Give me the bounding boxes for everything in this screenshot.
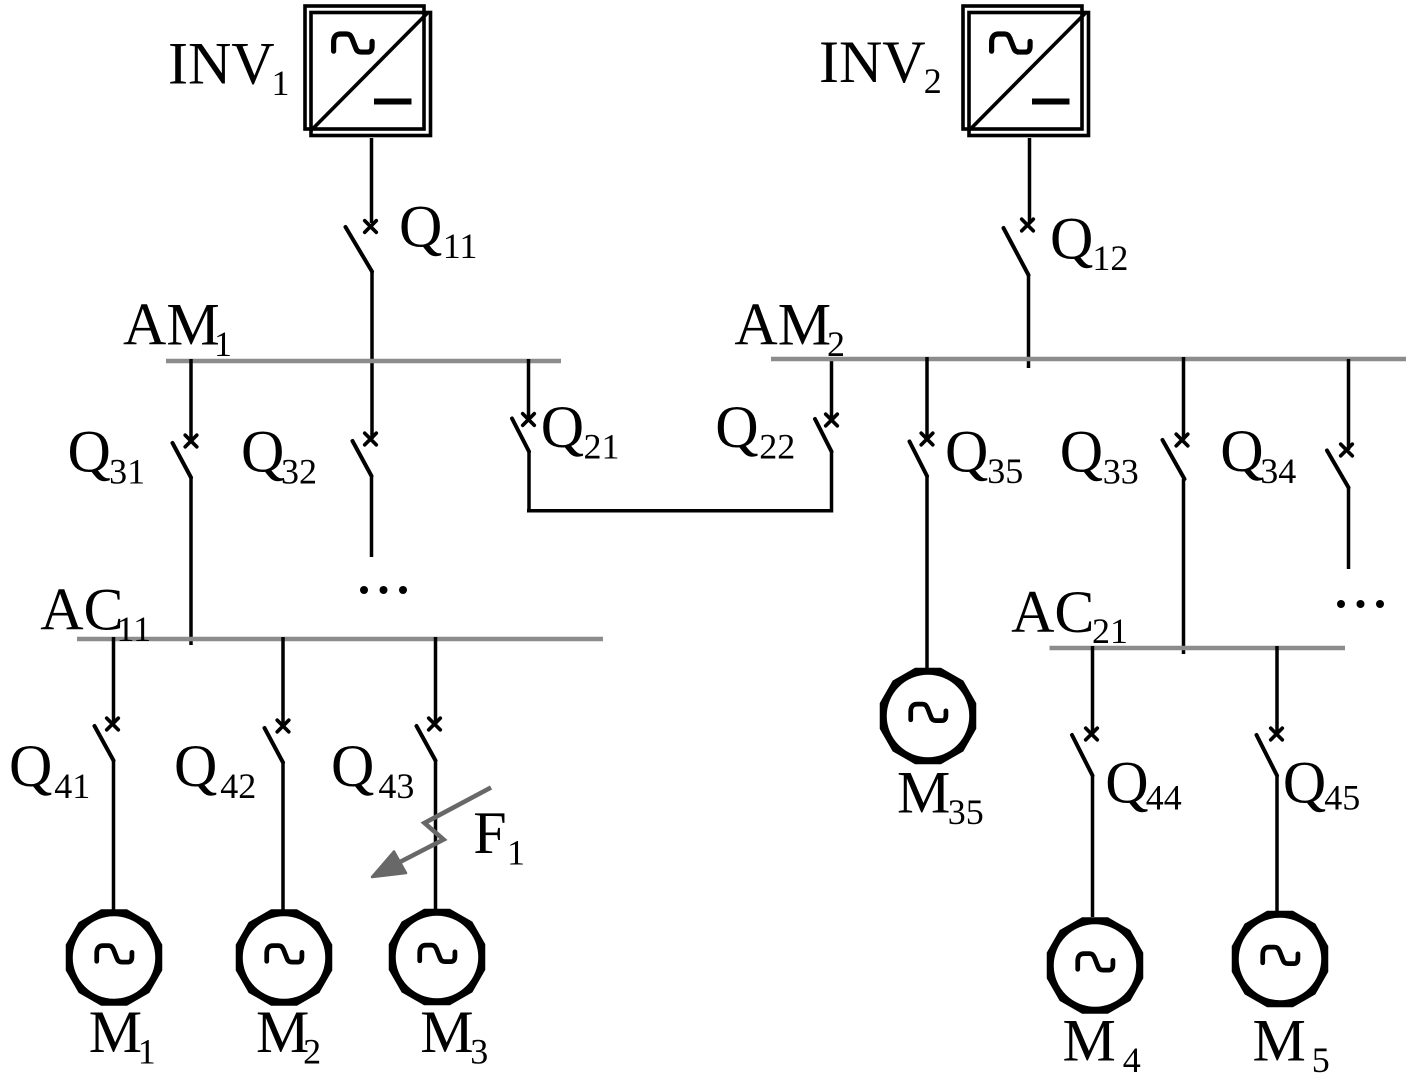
- label INV2: [819, 29, 942, 101]
- label Q34: [1220, 418, 1296, 491]
- svg-text:F: F: [473, 800, 506, 866]
- wire INV2 to Q12: [1028, 138, 1032, 223]
- label AM2: [734, 292, 845, 365]
- breaker Q32: [353, 433, 377, 476]
- breaker Q45: [1257, 728, 1283, 775]
- svg-text:Q: Q: [1050, 206, 1093, 272]
- svg-text:35: 35: [948, 792, 984, 832]
- breaker Q44: [1072, 728, 1097, 775]
- svg-text:Q: Q: [715, 394, 758, 460]
- svg-text:AM: AM: [734, 292, 831, 358]
- svg-text:42: 42: [220, 766, 256, 806]
- label Q21: [541, 394, 620, 466]
- bus AC21: [1050, 646, 1346, 651]
- label Q41: [9, 733, 90, 806]
- inverter INV1: [305, 6, 431, 136]
- svg-text:11: 11: [117, 609, 152, 649]
- svg-text:AC: AC: [1011, 579, 1094, 645]
- ellipsis below Q32: [360, 586, 407, 594]
- wire bus AM2 to Q33: [1182, 357, 1186, 440]
- label Q11: [399, 193, 477, 266]
- label Q35: [945, 418, 1023, 491]
- svg-text:21: 21: [1092, 611, 1128, 651]
- wire Q31 to bus AC11: [189, 478, 193, 646]
- wire bus AC11 to Q43: [434, 637, 438, 724]
- svg-text:Q: Q: [1283, 750, 1326, 816]
- svg-text:4: 4: [1123, 1040, 1141, 1073]
- svg-text:Q: Q: [331, 733, 374, 799]
- svg-text:2: 2: [303, 1032, 321, 1072]
- breaker Q21: [512, 414, 534, 452]
- svg-text:M: M: [256, 999, 309, 1065]
- label AC11: [40, 576, 151, 649]
- label Q31: [68, 419, 146, 492]
- wire Q45 to motor M5: [1275, 776, 1279, 912]
- motor M35: [882, 670, 974, 762]
- breaker Q42: [265, 720, 289, 762]
- svg-text:44: 44: [1146, 778, 1182, 818]
- label AM1: [123, 292, 232, 365]
- wire Q11 to bus AM1 and breaker Q32: [370, 272, 374, 440]
- fault arrow F1: [372, 788, 491, 878]
- label Q12: [1050, 206, 1128, 278]
- svg-text:M: M: [897, 760, 950, 826]
- breaker Q34: [1327, 444, 1352, 487]
- label Q45: [1283, 750, 1360, 818]
- label INV1: [168, 30, 290, 103]
- svg-text:43: 43: [378, 766, 414, 806]
- label M5: [1253, 1008, 1330, 1073]
- wire bus AC11 to Q42: [281, 637, 285, 726]
- inverter INV2: [963, 6, 1089, 136]
- motor M5: [1234, 913, 1326, 1005]
- wire bus AC11 to Q41: [112, 637, 116, 724]
- label F1: [473, 800, 525, 873]
- wire Q35 to motor M35: [925, 476, 929, 668]
- svg-text:Q: Q: [9, 733, 52, 799]
- svg-text:34: 34: [1260, 451, 1296, 491]
- breaker Q41: [95, 718, 119, 760]
- wire Q44 to motor M4: [1091, 776, 1095, 918]
- svg-text:45: 45: [1324, 778, 1360, 818]
- tie wire Q21 to Q22: [527, 509, 833, 513]
- svg-text:M: M: [1063, 1008, 1116, 1073]
- svg-text:35: 35: [987, 451, 1023, 491]
- label M4: [1063, 1008, 1141, 1073]
- svg-text:INV: INV: [819, 29, 926, 95]
- label Q33: [1060, 418, 1139, 491]
- wire bus AM1 to Q21: [527, 359, 531, 420]
- svg-text:AM: AM: [123, 292, 220, 358]
- bus AM1: [166, 359, 561, 364]
- svg-text:3: 3: [470, 1032, 488, 1072]
- svg-text:2: 2: [924, 61, 942, 101]
- wire Q43 to motor M3: [434, 761, 438, 910]
- label AC21: [1011, 579, 1128, 651]
- breaker Q33: [1163, 434, 1188, 479]
- label M2: [256, 999, 321, 1072]
- svg-text:Q: Q: [399, 193, 442, 259]
- motor M1: [68, 912, 160, 1004]
- svg-text:M: M: [1253, 1008, 1306, 1073]
- breaker Q22: [815, 414, 837, 451]
- svg-text:21: 21: [584, 426, 620, 466]
- breaker Q31: [173, 435, 197, 477]
- svg-text:Q: Q: [68, 419, 111, 485]
- svg-text:Q: Q: [945, 418, 988, 484]
- wire Q22 down: [830, 452, 834, 513]
- svg-text:22: 22: [759, 426, 795, 466]
- breaker Q43: [417, 718, 441, 760]
- wire bus AM2 to Q22: [830, 357, 834, 420]
- motor M2: [238, 912, 330, 1004]
- svg-text:M: M: [420, 999, 473, 1065]
- breaker Q35: [910, 433, 933, 476]
- svg-text:Q: Q: [174, 733, 217, 799]
- svg-text:32: 32: [281, 452, 317, 492]
- bus AM2: [771, 357, 1406, 362]
- svg-text:M: M: [89, 999, 142, 1065]
- svg-text:31: 31: [109, 452, 145, 492]
- svg-text:Q: Q: [1060, 418, 1103, 484]
- svg-text:1: 1: [138, 1032, 156, 1072]
- wire bus AM2 to Q35: [925, 357, 929, 439]
- wire Q32 stub: [370, 476, 374, 557]
- wire Q34 stub: [1347, 488, 1351, 570]
- svg-text:1: 1: [214, 324, 232, 364]
- label M1: [89, 999, 156, 1072]
- wire Q41 to motor M1: [112, 761, 116, 911]
- svg-text:AC: AC: [40, 576, 123, 642]
- wire Q21 down: [527, 452, 531, 513]
- svg-text:1: 1: [507, 833, 525, 873]
- svg-text:1: 1: [272, 63, 290, 103]
- wire bus AC21 to Q45: [1275, 646, 1279, 734]
- breaker Q12: [1004, 219, 1034, 275]
- motor M4: [1049, 920, 1141, 1012]
- svg-text:Q: Q: [541, 394, 584, 460]
- wire Q42 to motor M2: [281, 763, 285, 911]
- label Q32: [241, 419, 317, 492]
- motor M3: [391, 911, 483, 1003]
- wire Q12 to bus AM2: [1027, 275, 1031, 368]
- svg-text:Q: Q: [1105, 750, 1148, 816]
- svg-text:12: 12: [1092, 238, 1128, 278]
- label M35: [897, 760, 984, 833]
- wire bus AM2 to Q34: [1347, 359, 1351, 450]
- breaker Q11: [346, 221, 377, 272]
- svg-text:33: 33: [1103, 451, 1139, 491]
- label Q42: [174, 733, 256, 806]
- label Q22: [715, 394, 795, 466]
- svg-text:INV: INV: [168, 30, 275, 96]
- svg-text:Q: Q: [1220, 418, 1263, 484]
- svg-text:Q: Q: [241, 419, 284, 485]
- wire bus AM1 to Q31: [189, 359, 193, 441]
- label Q43: [331, 733, 414, 806]
- svg-text:41: 41: [54, 766, 90, 806]
- svg-text:5: 5: [1312, 1040, 1330, 1073]
- svg-text:11: 11: [443, 226, 478, 266]
- svg-text:2: 2: [827, 324, 845, 364]
- wire Q33 to bus AC21: [1182, 479, 1186, 654]
- bus AC11: [77, 637, 603, 642]
- wire bus AC21 to Q44: [1091, 646, 1095, 734]
- label Q44: [1105, 750, 1182, 818]
- label M3: [420, 999, 488, 1072]
- wire INV1 to Q11: [370, 138, 374, 223]
- ellipsis below Q34: [1337, 600, 1384, 608]
